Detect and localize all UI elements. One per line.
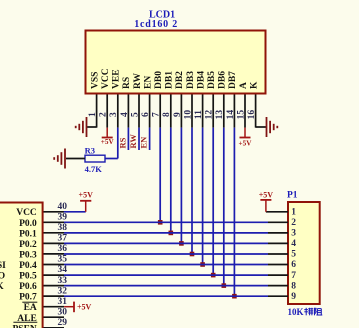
svg-text:+5V: +5V (239, 139, 253, 147)
svg-text:ISO: ISO (0, 272, 5, 282)
svg-text:6: 6 (141, 112, 151, 117)
svg-text:16: 16 (247, 110, 257, 120)
svg-text:RW: RW (128, 134, 138, 149)
svg-text:8: 8 (291, 281, 296, 291)
svg-text:37: 37 (58, 234, 68, 244)
svg-text:3: 3 (291, 229, 296, 239)
svg-text:EN: EN (139, 136, 149, 149)
svg-text:P0.0: P0.0 (19, 219, 37, 229)
svg-text:+5V: +5V (101, 138, 115, 146)
svg-text:36: 36 (58, 244, 68, 254)
svg-text:12: 12 (205, 110, 215, 120)
svg-text:EA: EA (24, 303, 37, 313)
svg-text:DB5: DB5 (207, 71, 217, 89)
svg-text:8: 8 (162, 112, 172, 117)
svg-text:DB6: DB6 (218, 71, 228, 89)
svg-text:P0.6: P0.6 (19, 282, 37, 292)
svg-text:31: 31 (58, 297, 68, 307)
svg-text:29: 29 (58, 318, 68, 328)
svg-text:3: 3 (109, 112, 119, 117)
svg-text:14: 14 (226, 110, 236, 120)
svg-text:13: 13 (215, 110, 225, 120)
svg-text:7: 7 (291, 271, 296, 281)
svg-text:38: 38 (58, 223, 68, 233)
svg-text:RW: RW (133, 72, 143, 89)
svg-text:CK: CK (0, 282, 4, 292)
svg-text:9: 9 (173, 112, 183, 117)
svg-text:40: 40 (58, 202, 68, 212)
svg-text:P0.1: P0.1 (19, 229, 37, 239)
svg-text:11: 11 (194, 110, 204, 119)
svg-text:30: 30 (58, 307, 68, 317)
svg-text:R3: R3 (85, 145, 95, 155)
svg-text:4.7K: 4.7K (85, 164, 103, 174)
svg-text:DB3: DB3 (186, 71, 196, 89)
svg-text:2: 2 (291, 218, 296, 228)
svg-text:2: 2 (99, 112, 109, 117)
svg-text:4: 4 (120, 112, 130, 117)
svg-text:VCC: VCC (16, 208, 37, 218)
svg-text:VEE: VEE (112, 69, 122, 89)
svg-text:1cd160 2: 1cd160 2 (134, 19, 178, 30)
svg-text:10K: 10K (288, 307, 304, 317)
svg-text:6: 6 (291, 260, 296, 270)
svg-text:DB1: DB1 (165, 71, 175, 89)
svg-text:+5V: +5V (77, 302, 92, 311)
svg-text:7: 7 (152, 112, 162, 117)
svg-text:4: 4 (291, 239, 296, 249)
svg-text:15: 15 (236, 110, 246, 120)
svg-text:P0.4: P0.4 (19, 261, 37, 271)
svg-text:P0.5: P0.5 (19, 272, 37, 282)
svg-text:OSI: OSI (0, 261, 6, 271)
svg-text:K: K (249, 81, 259, 89)
svg-text:32: 32 (58, 286, 68, 296)
svg-text:DB0: DB0 (154, 71, 164, 89)
svg-text:+5V: +5V (79, 191, 94, 200)
svg-text:39: 39 (58, 213, 68, 223)
svg-text:P1: P1 (287, 191, 298, 201)
svg-text:+5V: +5V (259, 190, 274, 199)
svg-text:A: A (239, 82, 249, 89)
svg-text:33: 33 (58, 276, 68, 286)
svg-text:35: 35 (58, 255, 68, 265)
svg-text:1: 1 (291, 207, 296, 217)
svg-text:P0.7: P0.7 (19, 293, 37, 303)
svg-text:VSS: VSS (90, 72, 100, 89)
svg-text:9: 9 (291, 292, 296, 302)
svg-text:PSEN: PSEN (13, 324, 37, 328)
svg-text:10: 10 (183, 110, 193, 120)
svg-text:EN: EN (143, 76, 153, 89)
svg-text:DB7: DB7 (228, 71, 238, 89)
svg-text:5: 5 (291, 250, 296, 260)
svg-text:RS: RS (117, 137, 127, 148)
svg-text:RS: RS (122, 77, 132, 89)
svg-text:P0.3: P0.3 (19, 250, 37, 260)
svg-text:5: 5 (130, 112, 140, 117)
svg-text:DB2: DB2 (175, 71, 185, 89)
svg-text:1: 1 (88, 112, 98, 117)
svg-text:DB4: DB4 (196, 71, 206, 89)
svg-text:VCC: VCC (101, 68, 111, 89)
svg-text:34: 34 (58, 265, 68, 275)
svg-text:P0.2: P0.2 (19, 240, 37, 250)
